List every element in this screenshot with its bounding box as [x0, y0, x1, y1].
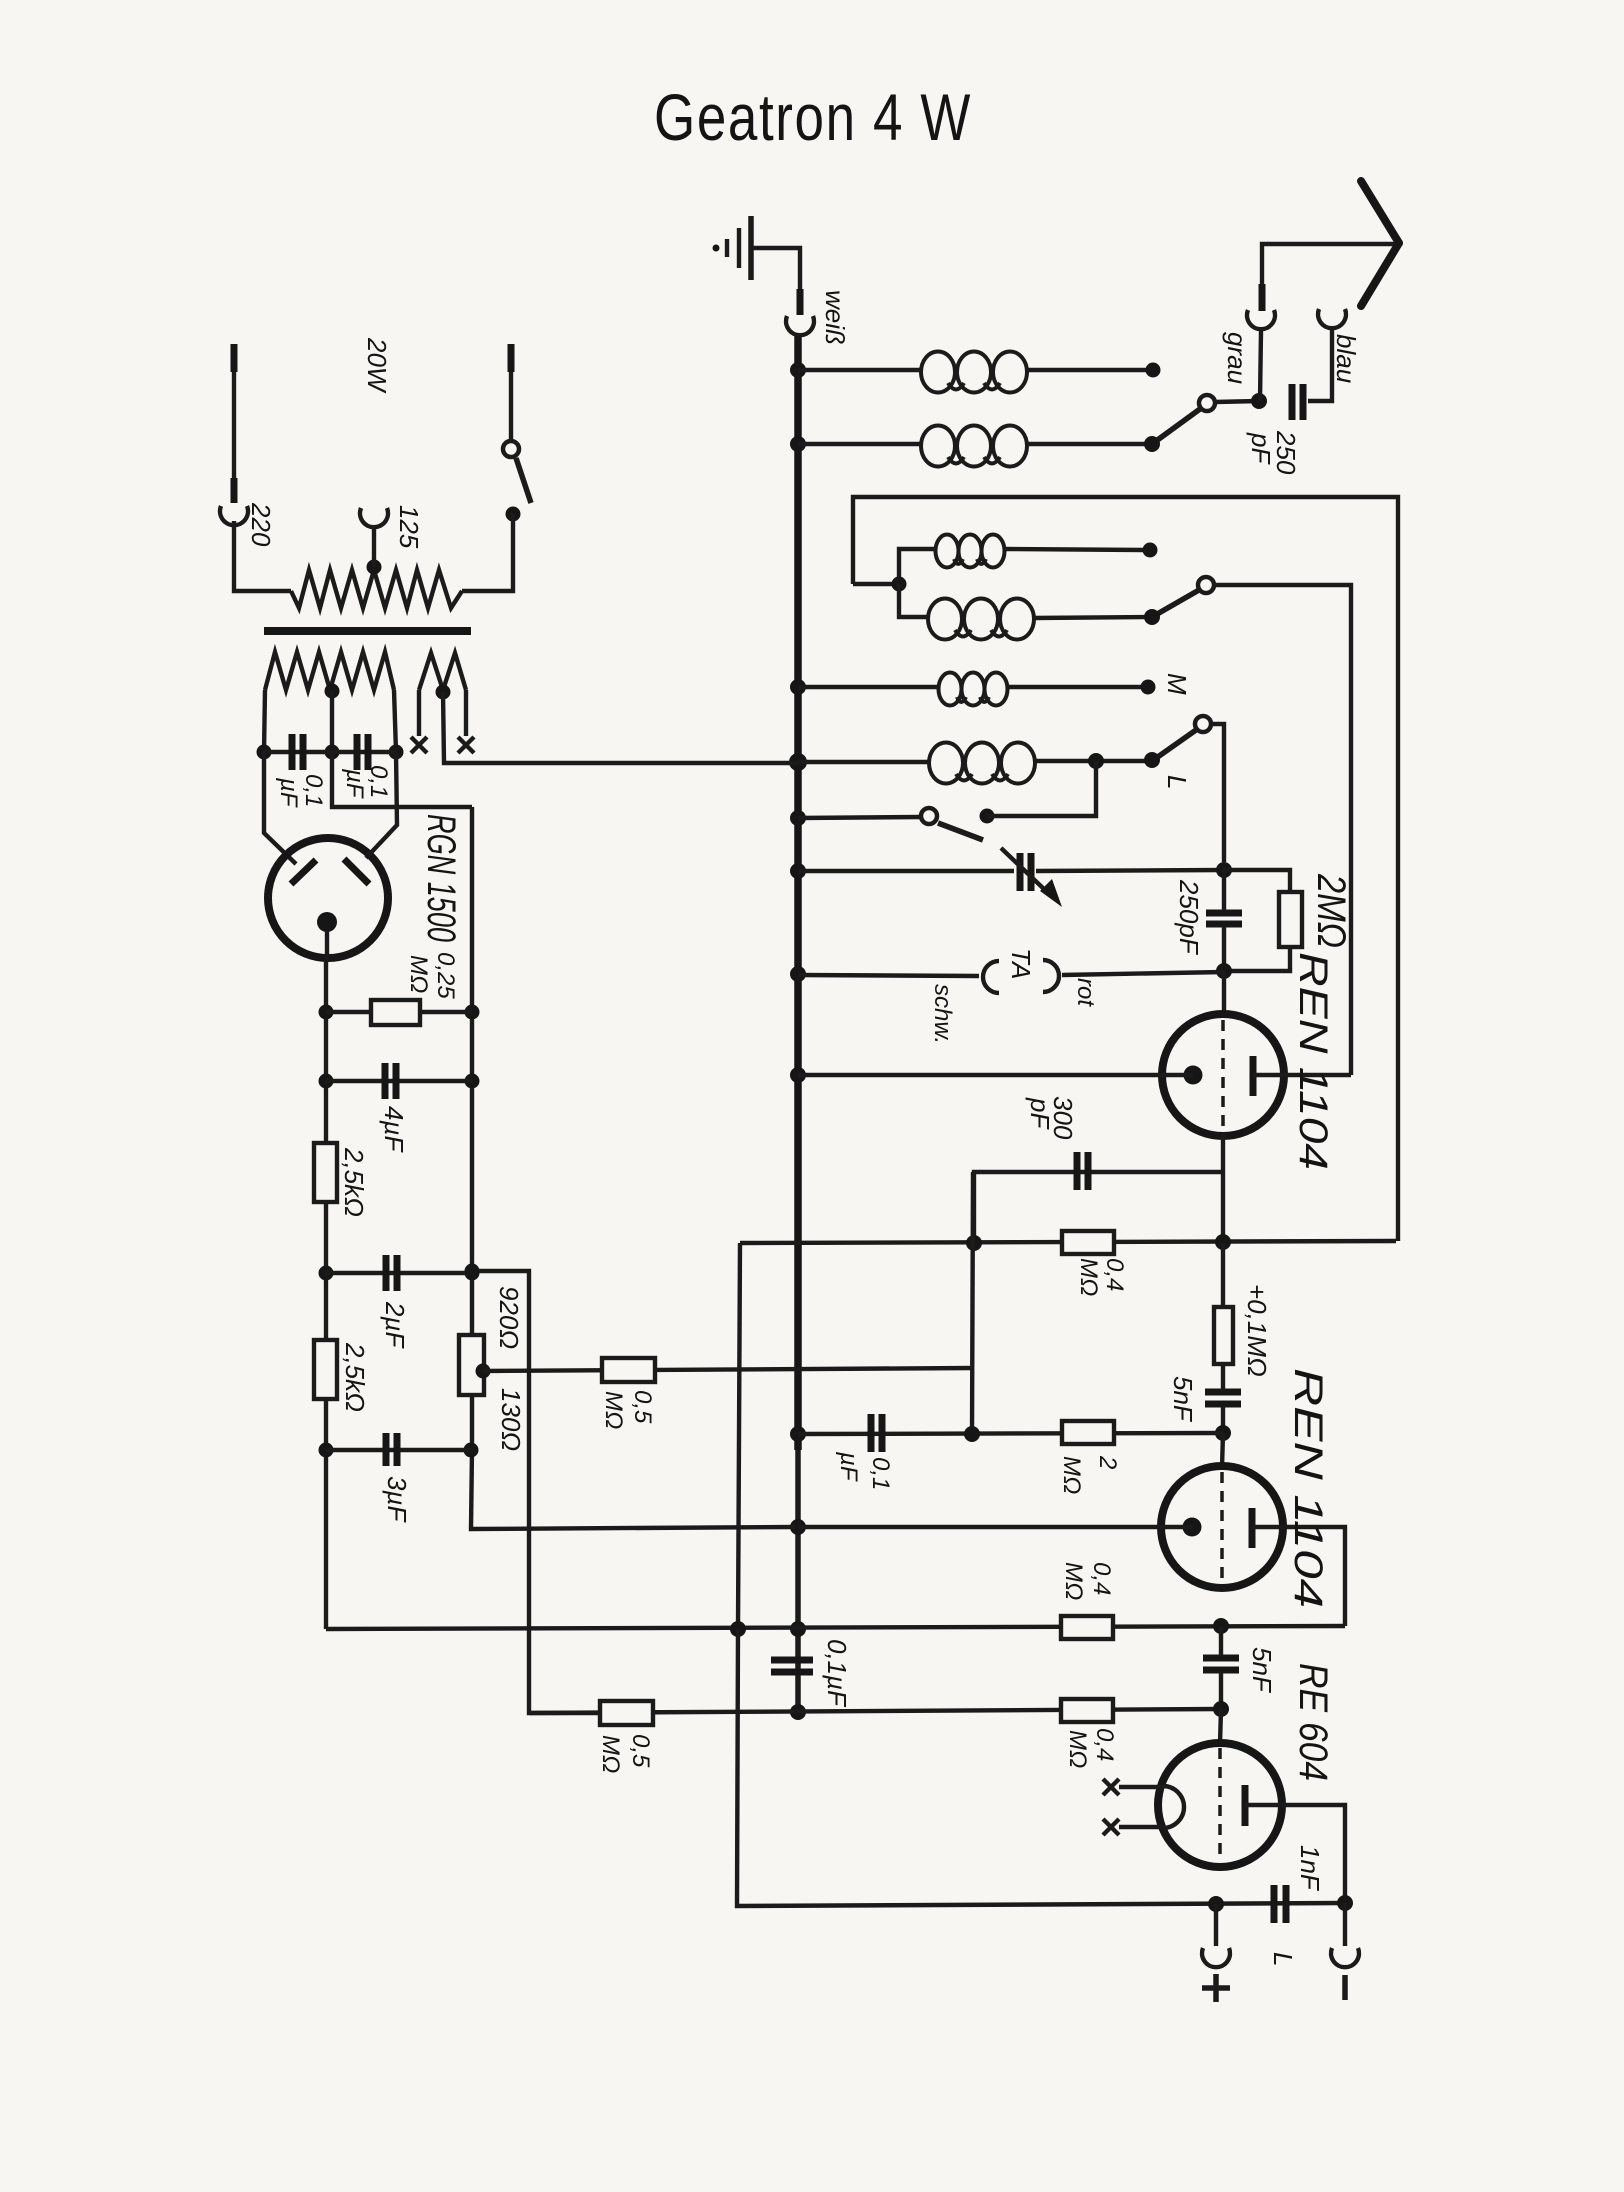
junction grid node: [1216, 963, 1232, 979]
wire plug left: [232, 372, 236, 479]
svg-text:2,5kΩ: 2,5kΩ: [340, 1342, 370, 1412]
svg-text:grau: grau: [1222, 332, 1252, 384]
label TA: [1006, 948, 1036, 979]
label minus: [1342, 1975, 1348, 2000]
svg-text:5nF: 5nF: [1247, 1647, 1277, 1694]
transformer filament winding: [419, 653, 466, 690]
label 2 MOhm h: [1058, 1455, 1121, 1494]
wire filament right lead: [464, 690, 468, 736]
jack socket blau: [1318, 309, 1346, 328]
wire grid tube1 bottom: [1221, 1134, 1225, 1243]
wire varcap row: [798, 869, 1014, 873]
capacitor 5nF second: [1203, 1658, 1239, 1670]
wire bias row 1243: [740, 1241, 1396, 1243]
wire 220 to primary: [234, 521, 291, 591]
wire coil3 jog: [853, 549, 935, 584]
junction output left: [1208, 1896, 1224, 1912]
mains plug pin left: [231, 344, 238, 372]
svg-text:125: 125: [394, 505, 424, 549]
resistor 0,4 MOhm mid: [1061, 1616, 1113, 1639]
svg-text:REN 1104: REN 1104: [1286, 1368, 1330, 1608]
resistor 2 MOhm h: [1062, 1421, 1114, 1444]
junction HV center tap: [325, 684, 340, 699]
svg-text:0,1: 0,1: [300, 774, 327, 807]
wire cathode1 to bus: [798, 1073, 1193, 1077]
wire grau node up: [1260, 331, 1261, 401]
svg-text:2,5kΩ: 2,5kΩ: [339, 1147, 369, 1217]
wire wave switch row: [798, 817, 921, 818]
node row1 end: [1146, 363, 1161, 378]
svg-text:TA: TA: [1006, 948, 1036, 979]
svg-text:MΩ: MΩ: [1075, 1258, 1102, 1296]
svg-text:weiß: weiß: [820, 290, 850, 345]
x mark filament right: [458, 737, 474, 753]
svg-text:Geatron 4 W: Geatron 4 W: [654, 80, 972, 154]
wire cathode2 to bus: [798, 1525, 1192, 1529]
svg-text:µF: µF: [835, 1451, 862, 1482]
wire right rail lower: [470, 1395, 474, 1450]
wire filament lead lower: [1119, 1825, 1163, 1829]
wire HV tap lead: [330, 691, 334, 752]
junction cap row left: [257, 745, 272, 760]
junction grid cap top: [1216, 862, 1232, 878]
wire filament lead upper: [1119, 1785, 1163, 1789]
switch wave contact: [921, 808, 937, 824]
wire HV right to anode: [366, 752, 397, 858]
junction bus M row: [790, 679, 806, 695]
resistor 920/130 Ohm tapped: [459, 1335, 484, 1395]
jack socket weiss: [786, 316, 814, 335]
junction left rail 2uF row: [319, 1266, 334, 1281]
wire 2M row: [798, 1433, 1223, 1434]
svg-text:0,1: 0,1: [365, 765, 392, 798]
wire feedback to anode line: [1214, 585, 1351, 1075]
cathode REN1104 first: [1184, 1066, 1203, 1085]
label 300 pF: [1025, 1096, 1078, 1140]
x mark filament upper: [1103, 1779, 1119, 1795]
junction antenna switch pivot: [1144, 436, 1160, 452]
junction bus L row: [789, 753, 807, 771]
junction right rail jog: [465, 1264, 480, 1279]
cathode RGN1500: [317, 912, 337, 932]
wire filament tap to bus: [443, 692, 798, 763]
coil L3: [936, 535, 1005, 568]
svg-text:REN 1104: REN 1104: [1291, 952, 1335, 1170]
anode REN1104 second: [1249, 1508, 1256, 1548]
connector pin weiss: [797, 289, 804, 315]
svg-text:MΩ: MΩ: [405, 955, 432, 993]
resistor 0,4 MOhm top: [1062, 1231, 1114, 1254]
junction 125 tap: [367, 560, 382, 575]
switch wave blade: [938, 823, 983, 840]
wire 5nF2 leads: [1219, 1626, 1223, 1709]
antenna: [1361, 181, 1399, 306]
junction bus 0,1uF row: [790, 1426, 806, 1442]
jack socket plus: [1202, 1948, 1230, 1967]
svg-text:µF: µF: [275, 777, 302, 808]
junction output right: [1337, 1895, 1353, 1911]
wire to 2M grid resistor: [1224, 870, 1290, 892]
jack socket minus: [1331, 1948, 1359, 1967]
wire anode2 lead: [1252, 1527, 1345, 1626]
wire 0,1M top lead: [1221, 1243, 1225, 1307]
wire HV tap to right rail: [332, 752, 472, 807]
coil L4: [928, 599, 1034, 640]
wire HV left lead: [264, 690, 265, 752]
switch feedback blade: [1152, 590, 1199, 617]
resistor 0,25 MOhm: [371, 1000, 420, 1025]
capacitor 5nF first: [1205, 1392, 1241, 1404]
jack TA left: [983, 961, 999, 993]
capacitor 4uF: [385, 1063, 396, 1099]
coil L5: [929, 743, 1035, 784]
x mark filament lower: [1103, 1819, 1119, 1835]
wire bus lower part: [795, 1450, 801, 1712]
anode pin left RGN1500: [291, 860, 316, 884]
svg-text:MΩ: MΩ: [1064, 1730, 1091, 1768]
svg-text:250pF: 250pF: [1174, 879, 1204, 956]
wire feedback rect top: [853, 497, 1398, 1241]
resistor 2 MOhm grid: [1279, 892, 1302, 947]
capacitor 250pF antenna: [1292, 384, 1303, 420]
svg-text:L: L: [1268, 1952, 1298, 1966]
svg-text:+0,1MΩ: +0,1MΩ: [1242, 1284, 1272, 1377]
junction left rail 0,25M row: [319, 1005, 334, 1020]
wire 300pF loop: [974, 1172, 1223, 1243]
switch mains contact: [503, 441, 519, 457]
wire left rail bottom row: [326, 1626, 1345, 1629]
label 0,4 MOhm low: [1064, 1728, 1118, 1768]
label 0,4 MOhm top: [1075, 1258, 1128, 1296]
transformer core: [264, 627, 471, 635]
junction 300pF left: [966, 1235, 982, 1251]
wire main bus (thick vertical): [794, 336, 802, 1450]
rectifier RGN1500: [268, 838, 388, 958]
resistor 2,5kOhm lower: [314, 1340, 337, 1399]
wire HV right lead: [394, 690, 396, 752]
svg-text:pF: pF: [1246, 432, 1276, 465]
junction right rail 2uF row: [465, 1266, 480, 1281]
wire wave switch to L row: [987, 761, 1096, 816]
junction cap row mid: [325, 745, 340, 760]
wire 0,25M row: [326, 1010, 472, 1014]
svg-text:µF: µF: [341, 768, 368, 799]
wire coil4 left: [899, 584, 930, 617]
svg-text:L: L: [1162, 775, 1192, 789]
svg-text:920Ω: 920Ω: [494, 1286, 524, 1349]
junction bus switch row: [790, 810, 806, 826]
wire cap row: [264, 750, 396, 754]
cathode REN1104 second: [1183, 1518, 1202, 1537]
x mark filament left: [411, 737, 427, 753]
junction switch bottom: [506, 507, 521, 522]
svg-text:schw.: schw.: [929, 984, 956, 1044]
wire TA row left: [798, 975, 979, 976]
label 250 pF antenna: [1246, 430, 1301, 475]
power triode RE604: [1158, 1743, 1282, 1867]
node coil3 end: [1143, 543, 1158, 558]
svg-text:0,1: 0,1: [867, 1457, 894, 1490]
svg-text:220: 220: [246, 502, 276, 547]
wire left rail: [324, 958, 328, 1629]
svg-text:2MΩ: 2MΩ: [1309, 873, 1353, 948]
resistor 0,5 MOhm upper: [602, 1358, 655, 1382]
grid RE604: [1218, 1748, 1222, 1862]
transformer primary winding: [291, 570, 462, 608]
wire switch to primary: [462, 514, 513, 591]
junction left rail 3uF row: [319, 1443, 334, 1458]
junction feedback switch pivot: [1144, 609, 1160, 625]
label 0,5 MOhm lower: [597, 1734, 654, 1773]
wire right rail upper: [470, 807, 474, 1335]
svg-text:130Ω: 130Ω: [496, 1388, 526, 1451]
capacitor 250pF grid: [1206, 913, 1242, 924]
wire L switch to gramo cap line: [1211, 724, 1224, 862]
wire cathode lead: [325, 930, 329, 958]
anode RE604: [1242, 1785, 1249, 1826]
junction right rail 3uF row: [464, 1443, 479, 1458]
wire 3uF row: [326, 1448, 471, 1452]
capacitor 0,1uF left: [292, 734, 303, 770]
svg-text:pF: pF: [1025, 1097, 1055, 1130]
svg-text:rot: rot: [1072, 978, 1099, 1007]
junction L switch pivot: [1144, 752, 1160, 768]
wire coil4 right: [1033, 617, 1152, 618]
wire right rail jog: [472, 1271, 602, 1713]
junction left rail 4uF row: [319, 1074, 334, 1089]
junction wave switch: [980, 809, 995, 824]
junction cap row right: [389, 745, 404, 760]
svg-text:M: M: [1162, 673, 1192, 695]
junction tap 920/130: [476, 1364, 491, 1379]
switch L blade: [1152, 730, 1196, 761]
junction L row mid: [1088, 753, 1104, 769]
capacitor 0,1uF coupling: [871, 1414, 882, 1452]
wire grid lead tube1: [1222, 971, 1226, 1016]
junction coil3 jog: [892, 577, 907, 592]
junction bus row1: [790, 362, 806, 378]
wire HV left to anode: [264, 752, 296, 864]
wire L row: [798, 760, 930, 764]
wire ground to antenna-bus: [753, 248, 800, 290]
svg-text:0,25: 0,25: [432, 952, 459, 999]
wire minus jack lead: [1343, 1903, 1347, 1946]
grid REN1104 second: [1220, 1472, 1224, 1584]
junction bus cathode2 row: [790, 1519, 806, 1535]
anode REN1104 first: [1250, 1056, 1257, 1096]
capacitor 1nF: [1274, 1885, 1286, 1923]
junction bus row2: [790, 436, 806, 452]
junction row1629 bias: [730, 1621, 746, 1637]
svg-text:0,5: 0,5: [627, 1734, 654, 1768]
wire output row: [737, 1629, 1345, 1906]
coil L1: [921, 352, 1027, 393]
resistor 0,5 MOhm lower: [600, 1701, 653, 1725]
wire coil3 right: [1004, 549, 1144, 550]
wire 4uF row: [326, 1079, 472, 1083]
resistor 0,1 MOhm: [1214, 1307, 1233, 1364]
node M terminal: [1141, 680, 1156, 695]
wire tap row to grid vertical: [483, 1368, 973, 1371]
wire M row: [798, 685, 939, 689]
svg-text:20W: 20W: [362, 337, 392, 394]
wire cap to blau: [1308, 330, 1332, 401]
capacitor 0,1uF right: [357, 734, 368, 770]
jack socket 220: [220, 506, 248, 525]
junction filament center tap: [436, 685, 451, 700]
svg-text:0,4: 0,4: [1088, 1562, 1115, 1595]
capacitor variable tuning: [1001, 848, 1062, 907]
switch L contact: [1195, 716, 1211, 732]
label 0,1uF right: [341, 765, 392, 799]
wire grau to antenna: [1262, 244, 1394, 285]
capacitor 300pF: [1077, 1152, 1088, 1190]
wire 5nF leads: [1221, 1364, 1225, 1433]
label 0,5 MOhm upper: [600, 1390, 656, 1429]
wire grid lead tube2: [1222, 1433, 1223, 1468]
capacitor 2uF: [386, 1255, 397, 1291]
wire filament left lead: [417, 690, 421, 736]
wire 2M bottom: [1224, 947, 1290, 971]
connector pin grau: [1259, 284, 1266, 311]
wire 2uF row: [326, 1271, 472, 1275]
capacitor 0,1uF bus: [771, 1660, 813, 1672]
wire row2: [798, 442, 922, 446]
svg-text:blau: blau: [1331, 334, 1361, 383]
jack socket 125: [360, 508, 388, 527]
wire row 1712: [529, 1709, 1221, 1713]
junction right rail 0,25M row: [465, 1005, 480, 1020]
triode REN1104 second: [1161, 1466, 1283, 1588]
svg-text:3µF: 3µF: [382, 1476, 412, 1523]
junction bus TA row: [790, 966, 806, 982]
connector pin 220: [231, 478, 238, 503]
svg-text:1nF: 1nF: [1295, 1845, 1325, 1892]
grid REN1104 first: [1221, 1020, 1225, 1132]
wire anode1 lead: [1253, 1073, 1351, 1077]
svg-text:0,4: 0,4: [1091, 1728, 1118, 1761]
wire varcap to grid cap: [1036, 870, 1224, 871]
label 0,25 MOhm: [405, 952, 459, 999]
wire anode3 lead: [1245, 1805, 1345, 1903]
resistor 0,4 MOhm low: [1061, 1699, 1113, 1722]
wire switch to grau node: [1215, 401, 1259, 402]
wire grid cap vertical: [1222, 870, 1226, 971]
svg-text:0,5: 0,5: [629, 1390, 656, 1424]
switch feedback contact: [1198, 577, 1214, 593]
svg-text:MΩ: MΩ: [1058, 1456, 1085, 1494]
wire row1: [798, 368, 922, 372]
wire TA row right: [1062, 972, 1224, 975]
filament RE604: [1163, 1786, 1184, 1828]
ground: [713, 216, 752, 280]
coil L2: [921, 426, 1027, 467]
junction bus varcap row: [790, 863, 806, 879]
svg-text:MΩ: MΩ: [597, 1735, 624, 1773]
resistor 2,5kOhm upper: [314, 1143, 337, 1202]
svg-text:0,1µF: 0,1µF: [822, 1639, 852, 1708]
svg-text:0,4: 0,4: [1101, 1258, 1128, 1291]
wire right rail to cathode row: [471, 1450, 795, 1529]
wire 125 tap: [372, 528, 376, 567]
label 0,1 uF coupling: [835, 1451, 894, 1490]
svg-text:MΩ: MΩ: [1060, 1562, 1087, 1600]
label 0,4 MOhm mid: [1060, 1562, 1115, 1600]
wire grid2 vertical: [972, 1172, 973, 1434]
svg-text:MΩ: MΩ: [600, 1391, 627, 1429]
junction grid3 node: [1213, 1701, 1229, 1717]
svg-text:RGN 1500: RGN 1500: [419, 814, 463, 942]
coil M: [939, 673, 1008, 706]
switch antenna contact: [1199, 395, 1215, 411]
svg-text:RE 604: RE 604: [1291, 1663, 1335, 1781]
junction bus cathode1 row: [790, 1067, 806, 1083]
junction right rail 4uF row: [465, 1074, 480, 1089]
anode pin right RGN1500: [344, 859, 369, 884]
wire grid lead tube3: [1220, 1709, 1221, 1744]
junction grau node: [1251, 393, 1267, 409]
svg-text:2: 2: [1094, 1455, 1121, 1469]
jack TA right: [1043, 960, 1059, 992]
junction bus row 1712: [790, 1704, 806, 1720]
svg-text:5nF: 5nF: [1168, 1376, 1198, 1423]
wire bias drop left: [738, 1243, 740, 1629]
label 0,1uF left: [275, 774, 327, 808]
junction 5nF2 top: [1213, 1618, 1229, 1634]
jack socket grau: [1247, 310, 1275, 329]
junction grid2 top: [1215, 1234, 1231, 1250]
transformer secondary HV winding: [265, 652, 394, 690]
junction grid2 node: [1215, 1425, 1231, 1441]
junction 2M row mid: [964, 1426, 980, 1442]
wire plus jack lead: [1214, 1904, 1218, 1946]
svg-text:2µF: 2µF: [380, 1301, 410, 1349]
triode REN1104 first: [1162, 1014, 1284, 1136]
mains plug pin right: [508, 344, 515, 372]
junction bus row 1629: [790, 1621, 806, 1637]
wire plug right to switch: [509, 372, 513, 441]
switch antenna blade: [1152, 409, 1200, 444]
svg-text:4µF: 4µF: [379, 1106, 409, 1153]
capacitor 3uF: [386, 1433, 397, 1466]
switch mains blade: [516, 458, 531, 503]
label plus: [1202, 1974, 1230, 2002]
